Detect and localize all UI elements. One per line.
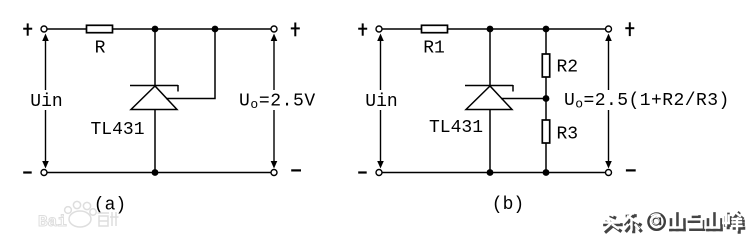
Uin measure arrow line (b) — [380, 38, 382, 163]
node T2 junction (R2 top) — [543, 26, 550, 33]
Uo measure arrow line (a) — [273, 38, 275, 163]
resistor R — [87, 25, 113, 32]
baidu watermark bai ke glyphs — [98, 212, 119, 226]
svg-text:R: R — [95, 39, 106, 59]
wire top-left to resistor R1 — [382, 28, 422, 30]
wire reference U2 to node M — [501, 98, 546, 100]
svg-text:R1: R1 — [423, 39, 445, 59]
wire bottom-left to node A2 — [382, 172, 490, 174]
node K2 junction (b cathode) — [487, 26, 494, 33]
resistor R2 — [542, 54, 549, 77]
svg-text:Uo=2.5(1+R2/R3): Uo=2.5(1+R2/R3) — [564, 91, 730, 112]
wire cathode U2 — [489, 29, 491, 86]
terminal bottom-left (b) — [376, 170, 382, 176]
svg-text:R3: R3 — [557, 125, 579, 145]
triangle U1 — [131, 86, 177, 110]
wire node M to resistor R3 — [545, 99, 547, 121]
label - (bottom-right b) — [626, 169, 636, 171]
terminal bottom-right (b) — [606, 170, 612, 176]
wire top-left to resistor R — [47, 28, 87, 30]
terminal top-left (a) — [41, 26, 47, 32]
label - (bottom-right a) — [291, 169, 301, 171]
svg-text:R2: R2 — [557, 58, 579, 78]
wire node K1 to node F1 — [155, 28, 215, 30]
wire resistor R to node K1 — [113, 28, 156, 30]
wire anode U1 — [154, 110, 156, 173]
wire resistor R2 to node M — [545, 77, 547, 99]
svg-text:Uin: Uin — [30, 92, 62, 112]
cathode bar tick U2 — [512, 85, 514, 92]
wire node T2 to terminal top-right (b) — [546, 28, 606, 30]
wire anode U2 — [489, 110, 491, 173]
wire node K2 to node T2 — [490, 28, 546, 30]
node A2 junction (b anode) — [487, 169, 494, 176]
terminal bottom-right (a) — [271, 170, 277, 176]
wire cathode U1 — [154, 29, 156, 86]
svg-text:TL431: TL431 — [90, 120, 144, 140]
terminal top-left (b) — [376, 26, 382, 32]
node A1 junction (a anode) — [152, 169, 159, 176]
wire node F1 to terminal top-right (a) — [215, 28, 271, 30]
TL431 U1 (a) — [130, 29, 215, 173]
node F1 junction (a feedback) — [212, 26, 219, 33]
wire node A2 to node B2 — [490, 172, 546, 174]
toutiao watermark at-sign — [648, 213, 664, 229]
TL431 U2 (b) — [465, 29, 546, 173]
wire reference U1 to node F1 — [166, 29, 215, 99]
terminal top-right (b) — [606, 26, 612, 32]
label + (top-left a) — [23, 23, 32, 35]
triangle U2 — [466, 86, 512, 110]
terminal bottom-left (a) — [41, 170, 47, 176]
wire node T2 to resistor R2 — [545, 29, 547, 54]
wire node B2 to terminal bottom-right (b) — [546, 172, 606, 174]
cathode bar tick U1 — [177, 85, 179, 92]
svg-text:(b): (b) — [492, 195, 524, 215]
Uo measure arrow line (b) — [608, 38, 610, 163]
svg-text:TL431: TL431 — [429, 118, 483, 138]
label - (bottom-left b) — [358, 171, 367, 173]
svg-text:Uin: Uin — [365, 92, 397, 112]
node B2 junction (R3 bottom) — [543, 169, 550, 176]
wire node A1 to terminal bottom-right (a) — [155, 172, 271, 174]
svg-text:Bai: Bai — [38, 213, 67, 231]
wire resistor R1 to node K2 — [448, 28, 491, 30]
label + (top-left b) — [358, 23, 367, 35]
cathode bar U1 — [130, 85, 178, 87]
wire resistor R3 to node B2 — [545, 143, 547, 173]
node K1 junction (a cathode) — [152, 26, 159, 33]
terminal top-right (a) — [271, 26, 277, 32]
cathode bar U2 — [465, 85, 513, 87]
node M junction (R2/R3 divider) — [543, 95, 550, 102]
label + (top-right a) — [291, 23, 300, 37]
resistor R3 — [542, 120, 549, 143]
resistor R1 — [422, 25, 448, 32]
label + (top-right b) — [625, 22, 634, 36]
wire bottom-left to node A1 — [47, 172, 155, 174]
Uin measure arrow line (a) — [45, 38, 47, 163]
label - (bottom-left a) — [23, 171, 32, 173]
baidu watermark paw — [65, 201, 97, 227]
